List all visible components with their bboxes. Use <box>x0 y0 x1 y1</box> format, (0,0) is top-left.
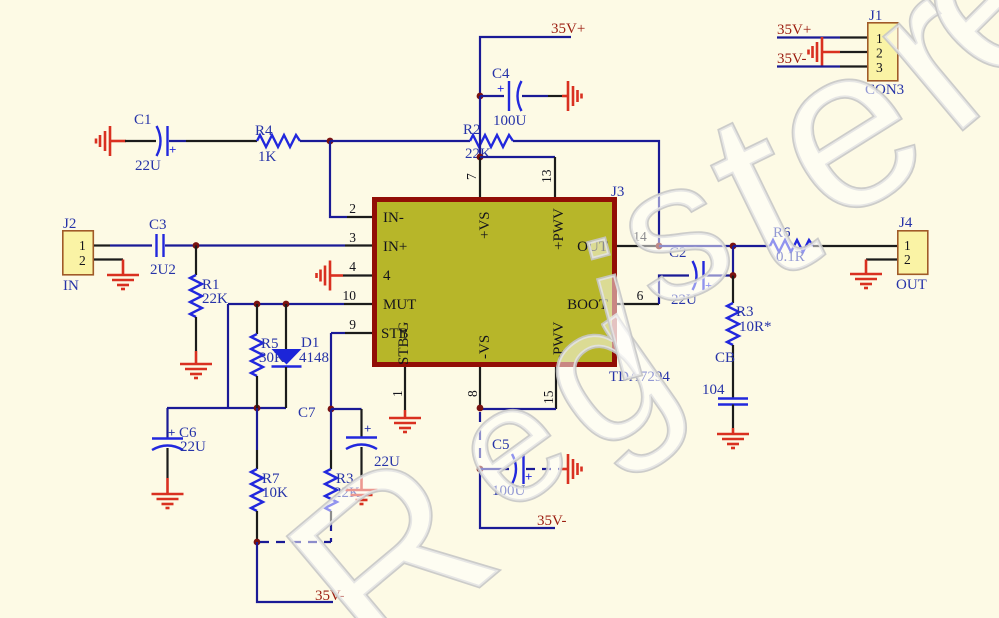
diode D1 4148 <box>272 304 330 408</box>
wire C5 node to 35V- <box>480 469 566 529</box>
svg-text:C7: C7 <box>298 405 316 421</box>
svg-text:D1: D1 <box>301 335 319 351</box>
svg-text:+: + <box>169 142 176 157</box>
svg-text:1: 1 <box>390 390 405 397</box>
wire MUT branch down <box>227 304 229 408</box>
pin 9 <box>331 317 412 365</box>
svg-text:2U2: 2U2 <box>150 262 176 278</box>
pin 4 <box>330 259 391 284</box>
wire <box>522 95 568 97</box>
node pin8/15 <box>477 405 484 412</box>
svg-text:3: 3 <box>349 230 356 245</box>
svg-text:22U: 22U <box>180 439 206 455</box>
node C4 junction <box>477 93 484 100</box>
connector J4 <box>896 215 928 293</box>
svg-text:22K: 22K <box>202 291 228 307</box>
wire J1 pin2 ground <box>822 51 867 53</box>
pin 7 label <box>464 173 493 239</box>
wire STBG vertical <box>330 333 332 409</box>
wire output <box>659 245 733 247</box>
svg-text:MUT: MUT <box>383 297 416 313</box>
svg-text:10R*: 10R* <box>739 319 772 335</box>
svg-text:CB: CB <box>715 350 735 366</box>
ground (R1) <box>180 364 212 378</box>
pin 3 <box>345 230 407 255</box>
node R5 bottom <box>254 405 261 412</box>
svg-text:C3: C3 <box>149 217 167 233</box>
svg-text:+: + <box>168 425 175 440</box>
svg-text:100U: 100U <box>493 113 527 129</box>
bottom pin names <box>477 322 567 360</box>
svg-text:IN+: IN+ <box>383 239 407 255</box>
ground (J2) <box>107 275 139 289</box>
resistor R4 <box>255 123 300 165</box>
IC J3 TDA7294 <box>375 184 671 385</box>
node R1 junction <box>193 242 200 249</box>
resistor R6 0.1R <box>770 225 813 265</box>
capacitor C5 <box>480 437 532 499</box>
node feedback junction <box>327 138 334 145</box>
pin 1 <box>390 367 405 418</box>
resistor R2 <box>463 122 513 162</box>
svg-text:C4: C4 <box>492 66 510 82</box>
svg-text:+VS: +VS <box>477 211 493 239</box>
pin 6 <box>567 276 689 314</box>
ground (CB) <box>717 434 749 448</box>
svg-text:IN-: IN- <box>383 210 404 226</box>
pin 13 label <box>539 169 567 250</box>
svg-text:13: 13 <box>539 169 554 183</box>
wire <box>733 245 770 247</box>
ground (J4) <box>850 274 882 288</box>
wire dashed C5 to ground <box>526 468 568 470</box>
svg-text:1K: 1K <box>258 149 277 165</box>
svg-text:10: 10 <box>343 288 357 303</box>
svg-text:4148: 4148 <box>299 350 329 366</box>
svg-text:22U: 22U <box>135 158 161 174</box>
ground (pin 4) <box>317 261 331 291</box>
svg-text:2: 2 <box>904 252 911 267</box>
capacitor C4 <box>480 66 527 129</box>
resistor R1 <box>190 246 228 365</box>
svg-text:R4: R4 <box>255 123 273 139</box>
resistor R3 <box>325 409 360 542</box>
connector J2 <box>63 216 94 294</box>
svg-text:2: 2 <box>79 253 86 268</box>
wire J2 pin1 <box>94 244 152 246</box>
svg-text:4: 4 <box>349 259 356 274</box>
pin 14 <box>577 229 659 255</box>
ground (C4) <box>568 81 582 111</box>
svg-text:9: 9 <box>349 317 356 332</box>
node R7 bottom <box>254 539 261 546</box>
wire C3 to pin3 <box>165 244 345 246</box>
wire J1 pin3 35V- <box>777 51 867 67</box>
ground (J1) <box>809 37 823 67</box>
wire feedback to output node <box>513 141 659 243</box>
svg-text:+PWV: +PWV <box>551 208 567 250</box>
capacitor C2 bootstrap <box>669 245 733 308</box>
resistor R5 <box>251 304 285 408</box>
svg-text:4: 4 <box>383 268 391 284</box>
wire +VS rail down <box>479 96 481 157</box>
wire 35V- bottom rail <box>257 542 344 604</box>
wire <box>300 140 330 142</box>
ground (C6) <box>152 494 184 508</box>
node C7 branch <box>328 406 335 413</box>
wire <box>125 140 156 142</box>
node R5 top <box>254 301 261 308</box>
svg-text:1: 1 <box>79 238 86 253</box>
ground (C5) <box>568 454 582 484</box>
resistor R7 <box>251 408 288 542</box>
wire J4 pin2 to ground <box>866 260 897 275</box>
wire to R2 <box>330 140 470 142</box>
svg-text:R2: R2 <box>463 122 481 138</box>
wire pin 13 <box>480 157 555 198</box>
capacitor CB 104 <box>702 382 748 434</box>
svg-text:STB-G: STB-G <box>396 321 412 365</box>
wire dashed to R7 node <box>260 541 331 543</box>
node C2 right top <box>730 243 737 250</box>
svg-text:OUT: OUT <box>896 277 927 293</box>
node C2/zobel <box>730 272 737 279</box>
pin 8 <box>465 367 480 408</box>
pin 2 <box>330 141 404 226</box>
ground (C7 cap) <box>346 490 378 504</box>
svg-text:C1: C1 <box>134 112 152 128</box>
node output feedback <box>656 243 663 250</box>
capacitor C3 <box>149 217 176 278</box>
svg-text:7: 7 <box>464 173 479 180</box>
svg-text:2: 2 <box>349 201 356 216</box>
capacitor C6 <box>152 408 206 494</box>
svg-text:IN: IN <box>63 278 79 294</box>
pin 15 <box>480 367 556 409</box>
svg-text:+: + <box>497 81 504 96</box>
node pin7/13 branch <box>477 154 484 161</box>
wire J2 pin2 to ground <box>94 260 123 276</box>
svg-text:6: 6 <box>637 288 644 303</box>
resistor R3 10R zobel <box>715 276 772 399</box>
capacitor C1 <box>134 112 176 174</box>
wire mute row <box>167 407 286 409</box>
svg-text:J2: J2 <box>63 216 76 232</box>
wire J1 pin1 35V+ <box>777 22 867 38</box>
wire <box>169 140 257 142</box>
node D1 top <box>283 301 290 308</box>
pin 10 <box>228 288 416 313</box>
svg-text:104: 104 <box>702 382 725 398</box>
wire to J4 <box>813 245 897 247</box>
wire dashed to C5 <box>479 412 481 465</box>
node C5 <box>477 466 484 473</box>
ground (input, left of C1) <box>96 126 126 156</box>
capacitor C7 22U <box>298 405 400 490</box>
ground (pin 1) <box>389 418 421 432</box>
connector J1 <box>865 8 904 98</box>
35V+ rail top <box>480 21 585 96</box>
wire pin 7 <box>479 157 481 198</box>
svg-text:35V+: 35V+ <box>551 21 585 37</box>
wire C2 right vertical <box>732 246 734 276</box>
